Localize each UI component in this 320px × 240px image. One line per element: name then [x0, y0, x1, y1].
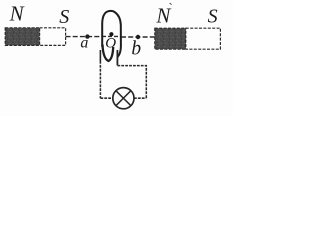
wire: bottom left horizontal to lamp: [100, 97, 113, 99]
node a (dot): [85, 34, 89, 38]
stray tick mark after right N: [170, 3, 172, 5]
coil (single-turn loop, edge-on): [102, 11, 121, 61]
lamp L (circle with X): [113, 88, 134, 109]
svg-text:O: O: [105, 35, 116, 51]
node O (dot at coil centre): [109, 32, 113, 36]
wire: dashed axis line, left segment (magnet to coil): [66, 36, 103, 38]
magnet right: N pole (dark): [155, 28, 186, 49]
node b (dot): [136, 35, 140, 39]
wire: bottom right horizontal from lamp: [134, 97, 146, 99]
svg-text:b: b: [131, 39, 141, 60]
svg-text:N: N: [155, 3, 171, 27]
svg-text:N: N: [9, 2, 25, 26]
svg-text:S: S: [59, 6, 69, 28]
svg-text:a: a: [80, 35, 88, 52]
wire: dashed axis line inside coil: [102, 35, 121, 37]
wire: left lead down from coil: [99, 50, 101, 61]
magnet left: S pole (white): [40, 28, 66, 46]
magnet left: N pole (dark): [5, 28, 39, 46]
svg-text:S: S: [208, 6, 218, 28]
magnet right: S pole (white): [186, 28, 221, 49]
wire: dashed axis line, right segment (coil to magnet): [121, 36, 155, 38]
wire: right lead from coil down, right, and down: [116, 50, 118, 65]
